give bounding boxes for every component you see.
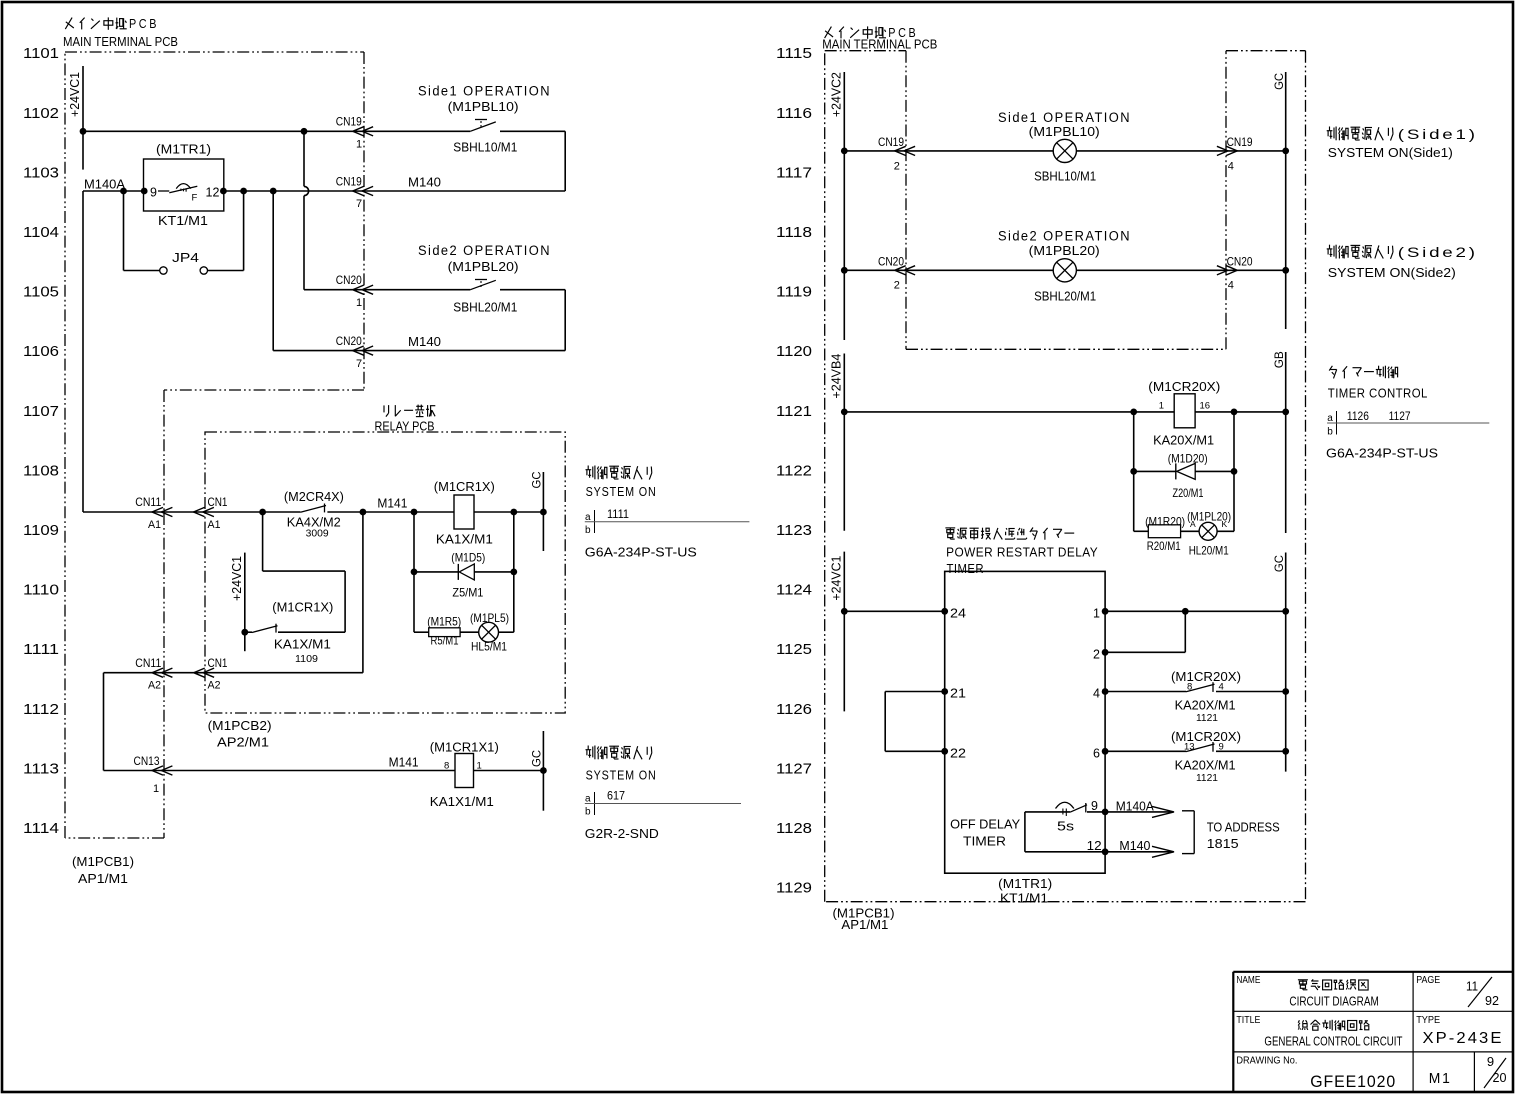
svg-text:11: 11	[1466, 979, 1478, 994]
relay coil KA1X1/M1 (M1CR1X1)	[444, 754, 482, 788]
pin 21 and 22 jumper bracket	[885, 688, 948, 755]
svg-text:1126: 1126	[1347, 411, 1369, 423]
svg-text:GC: GC	[530, 471, 544, 488]
svg-text:(M1R20): (M1R20)	[1145, 514, 1185, 528]
svg-text:M141: M141	[389, 756, 419, 770]
svg-text:1108: 1108	[23, 463, 59, 479]
pushbutton SBHL10/M1 (M1PBL10)	[470, 120, 496, 132]
svg-text:TIMER: TIMER	[947, 561, 985, 576]
svg-text:1: 1	[153, 783, 159, 795]
svg-text:TIMER CONTROL: TIMER CONTROL	[1328, 386, 1428, 401]
self-hold contact KA1X/M1 (M1CR1X)	[245, 512, 345, 633]
svg-text:KA20X/M1: KA20X/M1	[1175, 757, 1236, 772]
label KA4X/M2 3009	[287, 515, 341, 540]
svg-text:KA1X/M1: KA1X/M1	[436, 532, 493, 547]
svg-text:SBHL10/M1: SBHL10/M1	[1034, 169, 1096, 183]
wire net M141 row 1109 (A1)	[83, 509, 547, 516]
svg-text:(M1CR20X): (M1CR20X)	[1171, 669, 1241, 684]
svg-text:1: 1	[1159, 401, 1164, 412]
svg-text:CN1: CN1	[208, 656, 228, 670]
svg-text:9: 9	[1487, 1054, 1494, 1069]
svg-text:TITLE: TITLE	[1236, 1015, 1260, 1026]
svg-text:1104: 1104	[23, 225, 59, 241]
title block TITLE cell	[1236, 1015, 1402, 1049]
connector CN20 pin 7	[336, 334, 373, 370]
svg-text:GC: GC	[530, 750, 544, 767]
svg-text:1118: 1118	[776, 225, 812, 241]
svg-text:TIMER: TIMER	[963, 834, 1006, 849]
off-delay timer contact 5s (pins 9/12)	[1025, 802, 1109, 855]
svg-text:A1: A1	[148, 519, 161, 531]
to-address bracket	[1182, 811, 1194, 854]
svg-text:7: 7	[356, 358, 362, 370]
svg-text:1117: 1117	[776, 165, 812, 181]
connector CN20 pin 4 (right page)	[1217, 255, 1253, 292]
relay coil KA20X/M1 (M1CR20X)	[1159, 394, 1210, 428]
power rail +24VC2	[843, 72, 845, 340]
svg-text:a: a	[585, 512, 591, 523]
svg-text:4: 4	[1093, 687, 1100, 701]
svg-text:21: 21	[950, 687, 966, 701]
svg-text:92: 92	[1485, 993, 1499, 1008]
svg-text:(M1PCB2): (M1PCB2)	[208, 718, 272, 733]
title block sheet 9/20 cell	[1484, 1054, 1507, 1088]
svg-text:1109: 1109	[23, 523, 59, 539]
connector CN1 pin A2	[194, 656, 228, 692]
svg-text:JP4: JP4	[172, 250, 199, 265]
note 制御電源入り(Side2)	[1327, 245, 1478, 280]
svg-text:Side2 OPERATION: Side2 OPERATION	[998, 228, 1131, 243]
wire net M141 row 1113	[104, 767, 547, 774]
svg-text:1124: 1124	[776, 583, 812, 599]
svg-text:1102: 1102	[23, 106, 59, 122]
wire CN19-1 to switch SBHL10 and loop	[364, 131, 565, 191]
svg-text:A1: A1	[208, 519, 221, 531]
label contact pins 8-4	[1187, 682, 1224, 693]
svg-text:+24VC1: +24VC1	[230, 556, 244, 601]
timer relay KT1/M1 (M1TR1) with delayed contact	[144, 159, 224, 211]
svg-text:POWER RESTART DELAY: POWER RESTART DELAY	[946, 545, 1098, 560]
svg-text:PAGE: PAGE	[1416, 975, 1440, 986]
svg-text:SYSTEM ON: SYSTEM ON	[586, 484, 657, 499]
svg-text:G6A-234P-ST-US: G6A-234P-ST-US	[585, 544, 697, 559]
power rail +24VB4	[841, 354, 848, 531]
svg-text:HL20/M1: HL20/M1	[1189, 544, 1229, 558]
svg-text:SYSTEM ON(Side2): SYSTEM ON(Side2)	[1328, 265, 1456, 280]
wire net M140A row 1103	[83, 188, 364, 512]
wire +24VC1 to pin 24	[844, 608, 948, 615]
svg-text:+24VC2: +24VC2	[830, 72, 844, 117]
svg-text:(M1CR20X): (M1CR20X)	[1171, 729, 1241, 744]
svg-text:(M1CR1X): (M1CR1X)	[272, 600, 333, 615]
svg-text:CN19: CN19	[878, 135, 904, 149]
svg-text:6: 6	[1093, 747, 1100, 761]
wire snubber verticals (right)	[1130, 412, 1237, 531]
svg-text:CN20: CN20	[336, 273, 362, 287]
label (M1PCB1) AP1/M1 (right)	[833, 906, 895, 933]
note timer title 電源再投入遅延タイマー	[945, 528, 1074, 540]
svg-text:OFF DELAY: OFF DELAY	[950, 817, 1020, 832]
wire lamp circuit Side1 (CN19)	[841, 148, 1289, 155]
relay PCB boundary (M1PCB2)	[205, 432, 565, 713]
lamp SBHL10/M1 (M1PBL10) right	[1053, 139, 1076, 162]
svg-text:(M1PCB1): (M1PCB1)	[72, 854, 134, 869]
wire M140 output with arrow	[1105, 846, 1174, 857]
svg-text:1112: 1112	[23, 702, 59, 718]
svg-text:CN20: CN20	[1227, 255, 1253, 269]
wire net A2 row 1111	[104, 512, 363, 771]
label リレー基板	[384, 405, 435, 417]
ground bus GC (Side1/Side2)	[1282, 72, 1289, 329]
svg-text:CN13: CN13	[134, 754, 160, 768]
wire net 1121 (KA20X coil row)	[844, 409, 1285, 416]
svg-text:5s: 5s	[1057, 820, 1074, 834]
svg-text:A2: A2	[148, 680, 161, 692]
svg-text:1110: 1110	[23, 583, 59, 599]
svg-text:M140A: M140A	[84, 178, 126, 192]
ground bus GC (timer rows)	[1285, 553, 1287, 772]
svg-text:(M1PBL10): (M1PBL10)	[448, 99, 519, 114]
svg-text:CN11: CN11	[135, 495, 161, 509]
svg-text:SBHL20/M1: SBHL20/M1	[1034, 289, 1096, 303]
svg-text:M140A: M140A	[1116, 800, 1155, 814]
connector CN13 pin 1	[134, 754, 173, 795]
svg-text:GB: GB	[1272, 351, 1286, 368]
svg-text:M140: M140	[1119, 839, 1150, 853]
svg-text:M1: M1	[1429, 1070, 1452, 1087]
lamp HL5/M1 (M1PL5)	[479, 622, 514, 642]
svg-text:b: b	[1327, 427, 1333, 438]
svg-text:8: 8	[444, 761, 449, 772]
svg-text:1105: 1105	[23, 285, 59, 301]
connector CN19 pin 7	[336, 174, 373, 210]
power rail +24VC1 (relay PCB)	[241, 553, 248, 652]
title block frame	[1233, 972, 1513, 1092]
title block DRAWING cell	[1236, 1055, 1396, 1091]
svg-text:Z5/M1: Z5/M1	[452, 586, 483, 600]
wire pin 6 contact KA20X to GC	[1102, 742, 1289, 755]
svg-text:DRAWING No.: DRAWING No.	[1236, 1055, 1297, 1066]
title block PAGE cell	[1416, 975, 1499, 1008]
svg-text:1122: 1122	[776, 463, 812, 479]
svg-text:(M1TR1): (M1TR1)	[998, 876, 1052, 891]
svg-text:2: 2	[1093, 648, 1100, 662]
label メイン中継PCB (right)	[825, 26, 919, 40]
svg-text:(M1R5): (M1R5)	[427, 615, 461, 629]
connector CN19 pin 4 (right page)	[1217, 135, 1253, 172]
resistor R20/M1 (M1R20)	[1134, 525, 1199, 538]
svg-text:b: b	[585, 807, 591, 818]
svg-text:Side1 OPERATION: Side1 OPERATION	[418, 83, 551, 98]
svg-text:KA1X/M1: KA1X/M1	[274, 637, 331, 652]
svg-text:M140: M140	[408, 175, 441, 189]
svg-text:1111: 1111	[607, 509, 629, 521]
svg-text:4: 4	[1228, 160, 1234, 172]
svg-text:SBHL10/M1: SBHL10/M1	[453, 140, 517, 155]
wire snubber branch verticals	[411, 512, 518, 632]
label (M1PCB1) AP1/M1 (left)	[72, 854, 134, 886]
svg-text:1815: 1815	[1207, 836, 1239, 851]
label KA20X/M1 1121 (b)	[1175, 757, 1236, 784]
svg-text:KT1/M1: KT1/M1	[1000, 891, 1048, 906]
svg-text:1111: 1111	[23, 642, 59, 658]
connector CN11 pin A2	[135, 656, 172, 692]
svg-text:CN19: CN19	[336, 174, 362, 188]
right rung line numbers 1115-1129	[776, 46, 812, 896]
wire lamp circuit Side2 (CN20)	[841, 267, 1286, 274]
svg-text:1103: 1103	[23, 165, 59, 181]
svg-text:SBHL20/M1: SBHL20/M1	[453, 299, 517, 314]
svg-text:Side2 OPERATION: Side2 OPERATION	[418, 243, 551, 258]
svg-text:MAIN TERMINAL PCB: MAIN TERMINAL PCB	[822, 37, 937, 52]
svg-text:20: 20	[1493, 1070, 1507, 1085]
svg-text:HL5/M1: HL5/M1	[471, 640, 507, 654]
lamp SBHL20/M1 (M1PBL20) right	[1053, 259, 1076, 282]
svg-text:9: 9	[150, 186, 157, 200]
svg-text:9: 9	[1091, 799, 1098, 813]
label TO ADDRESS 1815	[1207, 820, 1280, 851]
svg-text:1128: 1128	[776, 821, 812, 837]
resistor R5/M1 (M1R5)	[414, 628, 479, 637]
svg-text:M141: M141	[377, 497, 407, 511]
svg-text:4: 4	[1228, 280, 1234, 292]
connector CN20 pin 2 (right page)	[878, 255, 915, 292]
relay coil KA1X/M1 (M1CR1X)	[454, 495, 474, 529]
svg-text:+24VC1: +24VC1	[68, 72, 82, 117]
svg-text:TO ADDRESS: TO ADDRESS	[1207, 820, 1280, 835]
svg-text:A2: A2	[208, 680, 221, 692]
svg-text:1129: 1129	[776, 881, 812, 897]
svg-text:16: 16	[1200, 401, 1211, 412]
svg-text:(M1PL20): (M1PL20)	[1187, 510, 1231, 524]
svg-text:12: 12	[206, 186, 220, 200]
svg-text:GC: GC	[1272, 555, 1286, 572]
svg-text:(Side2): (Side2)	[1398, 245, 1478, 260]
svg-text:2: 2	[894, 160, 900, 172]
svg-text:SYSTEM ON: SYSTEM ON	[586, 768, 657, 783]
label (M1TR1) KT1/M1 (right)	[998, 876, 1052, 906]
svg-text:a: a	[585, 794, 591, 805]
svg-text:G6A-234P-ST-US: G6A-234P-ST-US	[1326, 445, 1438, 460]
wire +24V branch to CN20-1 with hop over M140	[304, 131, 364, 289]
svg-text:KA20X/M1: KA20X/M1	[1175, 698, 1236, 713]
svg-text:1: 1	[356, 139, 362, 151]
power rail +24VC1 (top left)	[82, 66, 84, 170]
connector CN20 pin 1	[336, 273, 373, 309]
svg-text:1109: 1109	[295, 653, 318, 665]
svg-text:1125: 1125	[776, 642, 812, 658]
title block NAME cell	[1236, 975, 1378, 1008]
ground bus GB	[1282, 352, 1289, 533]
svg-text:Side1 OPERATION: Side1 OPERATION	[998, 110, 1131, 125]
svg-text:1: 1	[356, 297, 362, 309]
relay contact KA4X/M2 (M2CR4X)	[300, 504, 326, 513]
svg-text:+24VB4: +24VB4	[830, 354, 844, 399]
svg-text:AP2/M1: AP2/M1	[217, 735, 269, 750]
note 制御電源入り SYSTEM ON (1113)	[585, 746, 741, 842]
svg-text:PCB: PCB	[129, 17, 159, 31]
svg-text:1121: 1121	[776, 404, 812, 420]
svg-text:SYSTEM ON(Side1): SYSTEM ON(Side1)	[1328, 145, 1453, 160]
svg-text:R20/M1: R20/M1	[1147, 539, 1181, 553]
svg-text:1106: 1106	[23, 344, 59, 360]
svg-text:(M1D5): (M1D5)	[451, 551, 485, 565]
svg-text:NAME: NAME	[1236, 975, 1260, 986]
wire pin 2 jog to pin1 net	[1102, 611, 1186, 655]
timer unit KT1/M1 (M1TR1) block	[945, 571, 1105, 873]
wire pin 1 to GC bus	[1102, 608, 1289, 615]
svg-text:CN20: CN20	[878, 255, 904, 269]
ground bus GC (relay row)	[542, 472, 544, 551]
label OFF DELAY TIMER	[950, 817, 1020, 849]
note 制御電源入り(Side1)	[1327, 127, 1478, 161]
svg-text:1: 1	[477, 761, 482, 772]
diode Z5/M1 (M1D5)	[414, 564, 514, 580]
svg-text:GFEE1020: GFEE1020	[1310, 1072, 1396, 1091]
power rail +24VC1 (right)	[841, 552, 848, 712]
svg-text:24: 24	[950, 607, 966, 621]
wire pin 4 contact KA20X to GC	[1102, 682, 1289, 695]
label KA1X/M1 1109	[274, 637, 331, 666]
label メイン中継PCB (left)	[65, 17, 159, 31]
svg-text:CN20: CN20	[336, 334, 362, 348]
svg-text:RELAY PCB: RELAY PCB	[375, 419, 435, 434]
note タイマー制御 TIMER CONTROL	[1326, 366, 1489, 461]
svg-text:1127: 1127	[776, 761, 812, 777]
svg-text:KA1X1/M1: KA1X1/M1	[430, 794, 494, 809]
main terminal PCB boundary (right)	[825, 51, 1306, 902]
svg-text:G2R-2-SND: G2R-2-SND	[585, 826, 659, 841]
svg-text:F: F	[192, 193, 198, 204]
svg-text:1123: 1123	[776, 523, 812, 539]
svg-text:12: 12	[1087, 839, 1102, 853]
svg-text:(M1PBL20): (M1PBL20)	[1029, 243, 1100, 258]
svg-text:(M1CR1X): (M1CR1X)	[434, 479, 495, 494]
svg-text:1101: 1101	[23, 46, 59, 62]
diode Z20/M1 (M1D20)	[1134, 463, 1234, 479]
svg-text:(M1CR20X): (M1CR20X)	[1148, 379, 1220, 394]
svg-text:AP1/M1: AP1/M1	[78, 871, 128, 886]
svg-text:+24VC1: +24VC1	[830, 556, 844, 601]
label KA20X/M1 1121 (a)	[1175, 698, 1236, 725]
svg-text:CN11: CN11	[135, 656, 161, 670]
svg-text:GENERAL CONTROL CIRCUIT: GENERAL CONTROL CIRCUIT	[1264, 1035, 1402, 1049]
main terminal PCB boundary (M1PCB1 left)	[65, 52, 364, 838]
svg-text:AP1/M1: AP1/M1	[841, 917, 888, 932]
svg-text:2: 2	[894, 280, 900, 292]
svg-text:1121: 1121	[1196, 773, 1218, 784]
svg-text:(M1PL5): (M1PL5)	[470, 611, 509, 625]
svg-text:(Side1): (Side1)	[1398, 127, 1478, 142]
wire CN20-1 to switch SBHL20 loop	[364, 290, 565, 351]
svg-text:MAIN TERMINAL PCB: MAIN TERMINAL PCB	[63, 34, 178, 49]
svg-text:1107: 1107	[23, 404, 59, 420]
connector CN19 pin 2 (right page)	[878, 135, 915, 172]
pushbutton SBHL20/M1 (M1PBL20)	[470, 280, 496, 290]
svg-text:TYPE: TYPE	[1416, 1015, 1440, 1026]
svg-text:(M1TR1): (M1TR1)	[156, 142, 211, 157]
svg-text:1127: 1127	[1389, 411, 1411, 423]
svg-text:(M1D20): (M1D20)	[1168, 451, 1208, 465]
svg-text:22: 22	[950, 747, 966, 761]
connector CN19 pin 1	[336, 115, 373, 151]
svg-text:(M1PBL10): (M1PBL10)	[1029, 124, 1100, 139]
svg-text:1113: 1113	[23, 761, 59, 777]
title block TYPE cell	[1416, 1015, 1503, 1047]
note 制御電源入り SYSTEM ON (1109)	[585, 466, 750, 560]
svg-text:a: a	[1327, 413, 1333, 424]
svg-text:1: 1	[1093, 607, 1100, 621]
svg-text:R5/M1: R5/M1	[431, 634, 459, 648]
jumper JP4	[124, 191, 244, 274]
label (M1PCB2) AP2/M1	[208, 718, 272, 750]
note POWER RESTART DELAY TIMER	[946, 545, 1098, 576]
svg-text:GC: GC	[1272, 73, 1286, 90]
svg-text:1120: 1120	[776, 344, 812, 360]
connector CN1 pin A1	[194, 495, 228, 531]
connector CN11 pin A1	[135, 495, 172, 531]
left rung line numbers 1101-1114	[23, 46, 59, 837]
wire net M140 branch to CN20-7	[273, 191, 364, 351]
svg-text:1115: 1115	[776, 46, 812, 62]
svg-text:1126: 1126	[776, 702, 812, 718]
svg-text:617: 617	[607, 791, 625, 803]
svg-text:CN1: CN1	[208, 495, 228, 509]
svg-text:KT1/M1: KT1/M1	[158, 213, 208, 228]
svg-text:CN19: CN19	[1227, 135, 1253, 149]
svg-text:1116: 1116	[776, 106, 812, 122]
svg-text:1121: 1121	[1196, 713, 1218, 724]
ground bus GC (1113)	[542, 731, 544, 811]
svg-text:CN19: CN19	[336, 115, 362, 129]
label contact pins 13-9	[1184, 741, 1224, 752]
svg-text:(M1PBL20): (M1PBL20)	[448, 259, 519, 274]
svg-text:CIRCUIT DIAGRAM: CIRCUIT DIAGRAM	[1289, 995, 1378, 1009]
svg-text:KA20X/M1: KA20X/M1	[1153, 433, 1214, 448]
lamp HL20/M1 (M1PL20)	[1190, 519, 1234, 540]
svg-text:M140: M140	[408, 335, 441, 349]
svg-text:(M2CR4X): (M2CR4X)	[284, 489, 344, 504]
svg-text:(M1CR1X1): (M1CR1X1)	[430, 740, 499, 755]
svg-text:b: b	[585, 525, 591, 536]
wire net +24V row 1102 (CN19-1)	[80, 128, 364, 135]
svg-text:1119: 1119	[776, 285, 812, 301]
svg-text:1114: 1114	[23, 821, 59, 837]
svg-text:7: 7	[356, 198, 362, 210]
svg-text:Z20/M1: Z20/M1	[1173, 486, 1204, 500]
wire M140A output with arrow	[1105, 806, 1174, 817]
svg-text:3009: 3009	[306, 528, 329, 540]
svg-text:XP-243E: XP-243E	[1423, 1030, 1504, 1047]
